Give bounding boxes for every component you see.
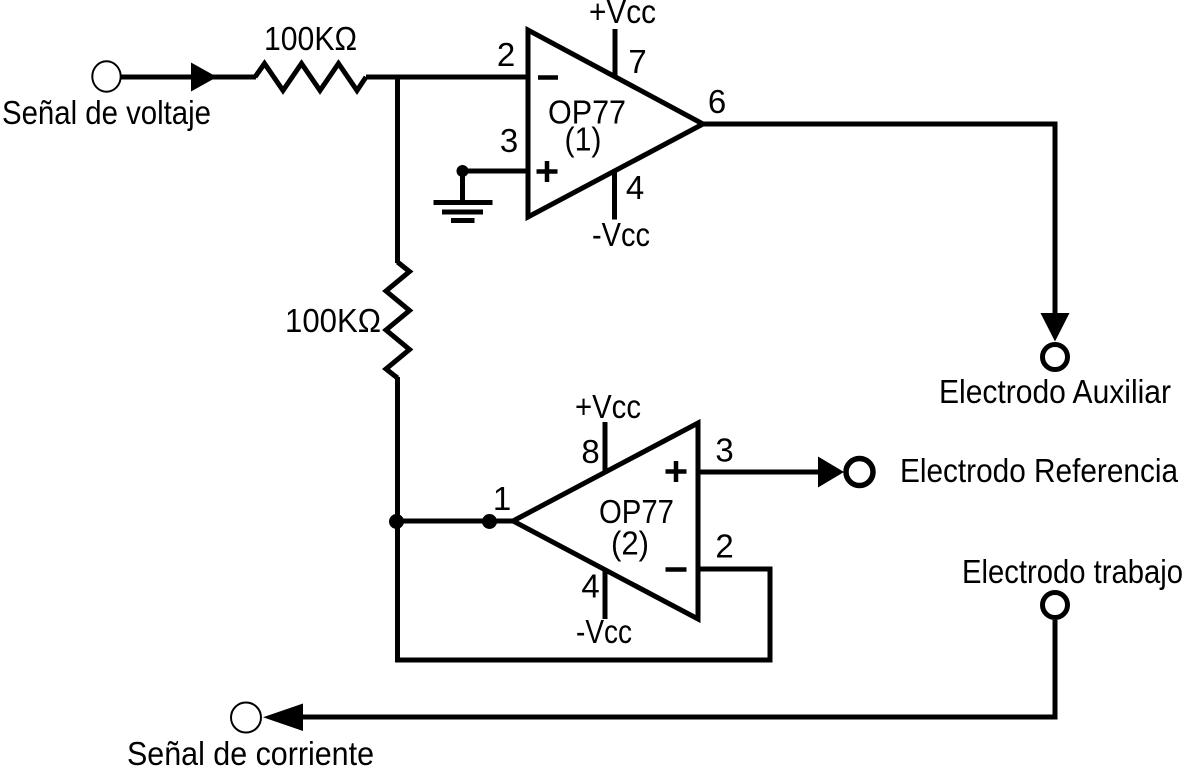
svg-text:-Vcc: -Vcc	[592, 216, 650, 253]
junction dot at U2 pin 1	[482, 514, 497, 529]
wire: U1 output pin 6 horizontal	[703, 122, 1058, 127]
wire: feedback bottom run	[395, 658, 770, 663]
wire: node A to op-amp U2 input apex	[396, 519, 514, 524]
svg-text:4: 4	[626, 169, 644, 206]
wire: ground to U1 non-inverting input	[463, 169, 529, 174]
svg-text:(1): (1)	[565, 121, 602, 158]
U1 -Vcc supply line	[612, 171, 617, 220]
svg-text:Electrodo trabajo: Electrodo trabajo	[962, 553, 1183, 590]
svg-text:+Vcc: +Vcc	[575, 388, 641, 425]
U2 minus symbol	[666, 567, 687, 572]
svg-text:3: 3	[715, 432, 733, 469]
svg-text:-Vcc: -Vcc	[576, 613, 632, 650]
node A junction dot	[389, 514, 404, 529]
svg-text:Señal de corriente: Señal de corriente	[127, 735, 374, 766]
svg-text:4: 4	[581, 568, 599, 605]
ground stem	[460, 171, 465, 203]
terminal circle: electrodo trabajo	[1043, 593, 1068, 618]
arrowhead to electrodo auxiliar	[1041, 313, 1070, 342]
arrowhead on input wire	[191, 63, 217, 92]
wire: junction branch down to R2	[395, 77, 400, 263]
wire: bottom run to señal de corriente	[300, 715, 1058, 720]
svg-text:Electrodo Referencia: Electrodo Referencia	[900, 452, 1179, 489]
wire: feedback down	[768, 569, 773, 663]
svg-text:6: 6	[708, 83, 726, 120]
ground bar 1	[434, 200, 493, 205]
terminal circle: señal de voltaje	[92, 61, 120, 91]
wire: R2 down to bottom feedback run	[395, 377, 400, 663]
terminal circle: electrodo auxiliar	[1043, 345, 1068, 370]
svg-text:1: 1	[493, 480, 511, 517]
svg-text:Electrodo Auxiliar: Electrodo Auxiliar	[939, 373, 1171, 410]
ground bar 3	[451, 218, 475, 223]
svg-text:Señal de voltaje: Señal de voltaje	[2, 94, 211, 131]
wire: input terminal to resistor R1	[118, 75, 256, 80]
svg-text:7: 7	[628, 43, 646, 80]
op-amp U1 OP77 (1) triangle	[528, 30, 703, 217]
resistor R2	[386, 262, 410, 378]
resistor R1	[255, 64, 366, 91]
svg-text:+Vcc: +Vcc	[589, 0, 656, 30]
svg-text:2: 2	[715, 528, 733, 565]
wire: U2 output pin 3 to referencia	[698, 470, 820, 475]
svg-text:2: 2	[497, 36, 515, 73]
wire: R1 to op-amp U1 inverting input	[366, 75, 528, 80]
wire: U2 pin 2 feedback horizontal	[698, 567, 773, 572]
U1 plus input symbol	[537, 161, 558, 182]
svg-text:100KΩ: 100KΩ	[264, 20, 357, 57]
op-amp U2 OP77 (2) triangle	[513, 423, 698, 619]
arrowhead to señal de corriente	[263, 704, 303, 732]
U2 -Vcc supply line	[603, 569, 608, 619]
ground junction dot	[457, 165, 469, 177]
arrowhead to electrodo referencia	[818, 457, 844, 488]
terminal circle: señal de corriente	[231, 703, 261, 733]
svg-text:100KΩ: 100KΩ	[285, 302, 381, 339]
wire: down to electrodo auxiliar	[1053, 124, 1058, 316]
ground bar 2	[442, 210, 483, 215]
svg-text:3: 3	[500, 122, 518, 159]
wire: trabajo down	[1053, 620, 1058, 720]
U1 minus input symbol	[538, 75, 558, 80]
terminal circle: electrodo referencia	[846, 459, 873, 486]
svg-text:8: 8	[581, 433, 599, 470]
U1 +Vcc supply line	[613, 29, 618, 78]
svg-text:(2): (2)	[611, 525, 649, 562]
U2 +Vcc supply line	[603, 422, 608, 472]
U2 plus symbol	[666, 461, 687, 482]
